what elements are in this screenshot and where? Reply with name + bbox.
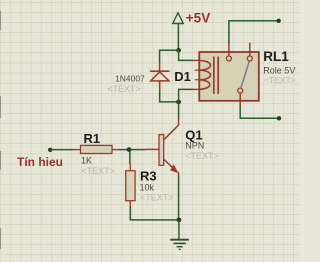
diode D1 (150, 71, 170, 90)
pin stub relay common (228, 44, 230, 56)
node A junction dot (176, 48, 181, 53)
svg-text:<TEXT>: <TEXT> (107, 84, 141, 94)
wire R3 bottom to node D (130, 207, 179, 220)
relay RL1 coil (195, 61, 211, 90)
svg-text:<TEXT>: <TEXT> (264, 75, 296, 85)
svg-text:Tín hieu: Tín hieu (17, 155, 63, 169)
relay RL1 core lines (214, 57, 218, 95)
wire node B down to Q1 collector (178, 102, 180, 118)
resistor R1 body (81, 145, 113, 153)
wire node C to Q1 base (129, 149, 145, 151)
node B junction dot (176, 100, 181, 105)
node C junction dot (127, 147, 132, 152)
pin stub relay NO (249, 43, 251, 56)
svg-text:+5V: +5V (186, 10, 210, 25)
ground (170, 240, 189, 250)
wire +5V down to node A (177, 24, 179, 51)
svg-text:1N4007: 1N4007 (115, 74, 145, 84)
svg-text:RL1: RL1 (263, 49, 289, 64)
wire end dot top right (277, 19, 281, 23)
wire node A left (160, 49, 179, 51)
pin stub R3 top (129, 164, 131, 171)
relay RL1 body (199, 52, 258, 101)
wire R1 to node C (119, 149, 129, 151)
pin stub R3 bottom (129, 201, 131, 207)
wire node D to ground (178, 220, 180, 240)
wire Q1 emitter down to node D (178, 177, 180, 220)
power +5V terminal arrow (173, 13, 184, 24)
svg-text:10k: 10k (140, 182, 155, 192)
pin stub diode D1 cathode (159, 64, 161, 71)
wire end dot input (48, 148, 52, 152)
wire node C down to R3 (129, 150, 131, 164)
wire down to diode D1 anode top (159, 50, 161, 64)
wire relay common to top right (229, 21, 279, 44)
wire relay pole to bottom right (240, 105, 279, 118)
wire node A to relay coil top (179, 50, 194, 60)
svg-text:D1: D1 (174, 69, 191, 84)
svg-text:<TEXT>: <TEXT> (81, 166, 115, 176)
wire diode bottom to node B (160, 91, 179, 102)
transistor Q1 emitter diagonal with arrow (164, 159, 178, 172)
wire input to R1 (50, 149, 73, 151)
pin stub relay pole bottom (239, 93, 241, 105)
wire relay coil bottom to node B (179, 89, 194, 102)
resistor R3 body (126, 171, 135, 201)
relay RL1 NO pin circle (247, 56, 252, 61)
wire end dot bottom right (277, 116, 281, 120)
pin stub Q1 base (145, 148, 159, 150)
svg-text:NPN: NPN (185, 141, 204, 151)
relay RL1 pole pin circle (238, 88, 243, 93)
node D junction dot (177, 218, 182, 223)
svg-text:<TEXT>: <TEXT> (140, 192, 174, 202)
relay RL1 common pin circle (226, 56, 231, 61)
svg-text:R1: R1 (84, 131, 101, 146)
relay RL1 switch arm (241, 61, 249, 88)
svg-text:<TEXT>: <TEXT> (185, 151, 219, 161)
transistor Q1 collector diagonal (164, 125, 179, 140)
svg-text:1K: 1K (81, 156, 92, 166)
pin stub R1 right (112, 149, 119, 151)
svg-text:R3: R3 (140, 168, 157, 183)
pin stub Q1 emitter (178, 172, 180, 176)
pin stub Q1 collector (178, 118, 180, 126)
pin stub relay coil top terminal (193, 59, 199, 61)
pin stub R1 left (73, 149, 81, 151)
pin stub relay coil bottom terminal (193, 88, 199, 90)
transistor Q1 base bar (159, 135, 164, 166)
